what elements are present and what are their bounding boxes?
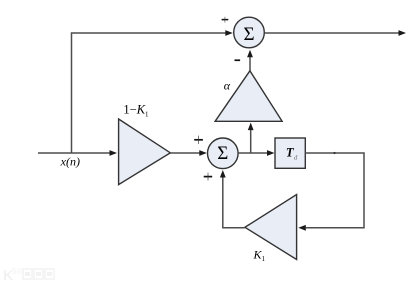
delay block Td: [275, 138, 305, 168]
wire K1 to middle adder bottom: [223, 177, 245, 228]
wire output: [265, 32, 399, 34]
plus sign top adder input: [222, 19, 229, 21]
wire delay box to feedback corner and into K1: [305, 153, 364, 228]
wire input x(n): [38, 152, 110, 154]
watermark: [3, 267, 54, 283]
svg-text:α: α: [224, 79, 231, 93]
wire 1-K1 to middle adder: [171, 152, 200, 154]
wire alpha to top adder: [249, 57, 251, 71]
wire middle adder to delay box: [238, 152, 267, 154]
summing junction U2 (middle sigma): [208, 138, 239, 169]
summing junction U1 (top sigma): [234, 17, 265, 48]
gain block alpha (triangle up): [215, 71, 282, 122]
gain block K1 (triangle left): [245, 195, 297, 260]
svg-text:5®: 5®: [12, 267, 22, 276]
svg-text:Σ: Σ: [243, 24, 254, 45]
node branch (vertical wire to top adder): [72, 33, 226, 153]
junction dot on wire: [333, 152, 335, 154]
gain block 1-K1 (triangle right): [119, 119, 171, 185]
wire junction up to alpha: [250, 130, 252, 153]
svg-text:x(n): x(n): [60, 154, 80, 168]
minus sign on feedback into top adder: [235, 59, 241, 61]
plus sign middle adder upper input: [194, 139, 203, 141]
svg-text:Σ: Σ: [217, 143, 228, 164]
plus sign middle adder lower input: [204, 176, 213, 178]
